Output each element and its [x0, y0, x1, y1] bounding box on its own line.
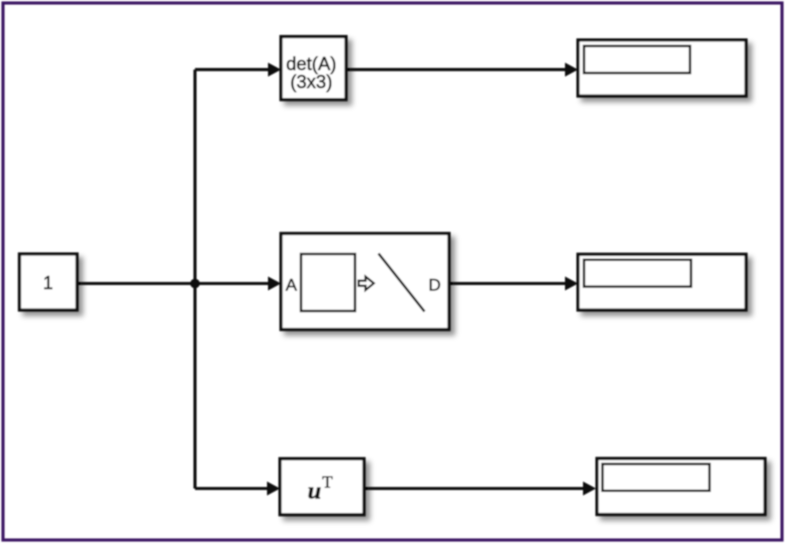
svg-text:u: u	[308, 477, 322, 504]
svg-text:1: 1	[43, 273, 53, 293]
svg-text:(3x3): (3x3)	[290, 71, 332, 92]
svg-text:A: A	[286, 276, 298, 295]
svg-text:D: D	[428, 276, 440, 295]
svg-text:T: T	[322, 473, 333, 492]
